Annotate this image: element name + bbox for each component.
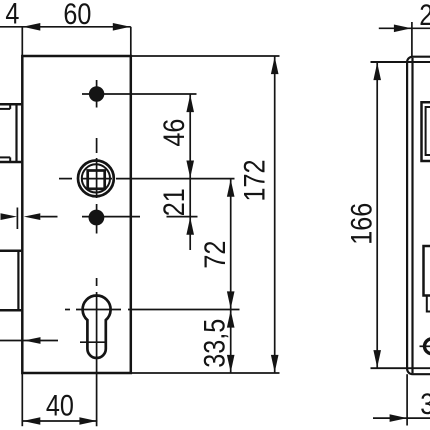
faceplate side view outline [407, 57, 430, 375]
arrow dim 60 left / dim 4 [23, 23, 41, 31]
arrow dim 46 top [186, 95, 194, 113]
spindle square hole [88, 171, 105, 189]
dimension line 33,5 [230, 310, 232, 374]
arrow dim 21 bottom (outside) [186, 217, 194, 235]
svg-text:2: 2 [419, 0, 430, 32]
svg-text:33,5: 33,5 [197, 319, 231, 368]
arrow dim top right [394, 25, 412, 33]
svg-text:3: 3 [420, 387, 430, 421]
bolt slot lower step [427, 296, 430, 312]
dimension line 3 [373, 417, 430, 419]
lower bolt protruding at left [0, 251, 21, 310]
extension line plate front face down [406, 374, 408, 425]
arrow dim 40 left [23, 417, 41, 425]
arrow dim 33,5 bottom [227, 355, 235, 373]
arrow dim 60 right [113, 23, 131, 31]
svg-text:166: 166 [345, 203, 379, 245]
svg-text:40: 40 [46, 388, 74, 422]
svg-text:21: 21 [157, 188, 191, 216]
lock case outline (front view) [22, 56, 131, 373]
arrow dim 33,5 top [227, 310, 235, 328]
dimension line 172 [274, 56, 276, 373]
extension line case bottom to 172 dim [131, 372, 280, 374]
profile cylinder hole [83, 295, 111, 358]
arrow dim 172 bottom [271, 355, 279, 373]
centre tick cylinder stem bottom [80, 341, 106, 343]
svg-text:4: 4 [5, 0, 19, 30]
arrow dim 172 top [271, 57, 279, 75]
centreline hole 2 / extension to 21 dim [82, 216, 198, 218]
arrow dim 46 bottom [186, 161, 194, 179]
leader arrow pointing left at faceplate [0, 337, 58, 344]
dimension line 21 [189, 179, 191, 217]
bolt slot upper, outer [422, 102, 430, 161]
arrow dim 40 right [79, 417, 97, 425]
dimension line 166 [376, 62, 378, 368]
extension line case left edge up [21, 27, 23, 56]
dimension line 40 [22, 420, 97, 422]
vertical centreline through holes [96, 80, 98, 426]
fixing hole middle (filled) [89, 210, 105, 226]
tail below dim 21 [189, 217, 191, 250]
spindle follower: outer circle [78, 161, 114, 197]
extension line plate back face up [411, 22, 413, 57]
svg-text:60: 60 [63, 0, 91, 30]
horizontal centreline nut / extension to 46-21-72 dims [59, 178, 235, 180]
bolt slot lower [424, 246, 430, 296]
svg-text:72: 72 [198, 241, 232, 269]
fixing hole top (filled) [89, 86, 104, 101]
svg-text:46: 46 [157, 119, 191, 147]
screw hole side view [420, 339, 430, 354]
upper bolt protruding at left [0, 104, 21, 162]
svg-text:172: 172 [238, 159, 272, 201]
arrow dim 72 bottom [227, 291, 235, 309]
horizontal centreline cylinder hole / extension to 72-33.5 dims [65, 309, 240, 311]
dimension line 4 / 60 [0, 26, 131, 28]
dimension line 46 [189, 94, 191, 179]
faceplate back face line [411, 58, 413, 374]
extension line case top to 172 dim [131, 55, 280, 57]
extension line case left edge down [21, 373, 23, 426]
centreline hole 1 / extension to 46 dim [82, 93, 197, 95]
dimension line 72 [230, 179, 232, 310]
bolt slot upper, inner [426, 107, 430, 155]
arrow dim 72 top [227, 179, 235, 197]
faceplate thickness arrows at left (cropped dim) [1, 208, 58, 230]
extension line case right edge up [130, 27, 132, 56]
arrow dim 166 top [373, 63, 381, 81]
spindle follower: inner circle [82, 164, 110, 192]
case bottom edge side view / 166 extension bottom [371, 367, 430, 369]
case top edge side view / 166 extension top [371, 61, 430, 63]
dimension line top right (cropped) [379, 27, 430, 29]
arrow dim 3 [390, 414, 408, 422]
arrow dim 166 bottom [373, 350, 381, 368]
